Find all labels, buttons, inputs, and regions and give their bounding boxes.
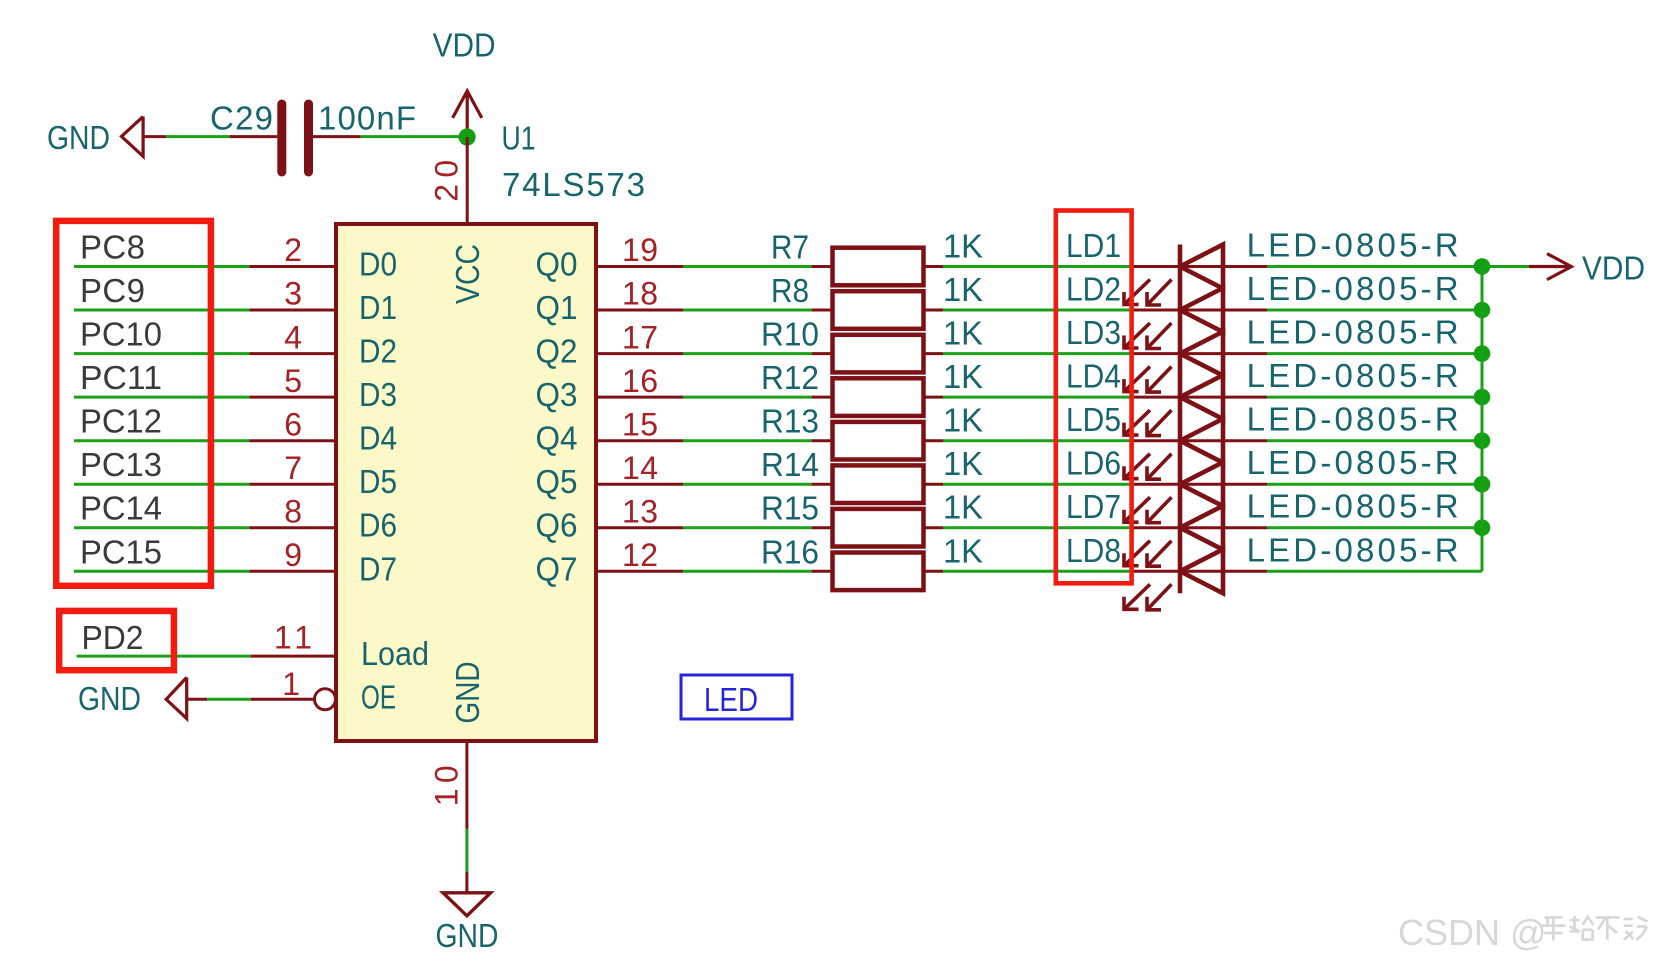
svg-text:GND: GND xyxy=(78,680,141,717)
pin 4 D2 xyxy=(250,319,398,369)
LED LD8 LED-0805-R xyxy=(1066,531,1459,610)
svg-text:74LS573: 74LS573 xyxy=(502,166,645,203)
resistor R16 1K xyxy=(761,532,983,590)
svg-text:Q0: Q0 xyxy=(536,246,578,283)
wire LD5 to VDD bus xyxy=(1267,439,1482,442)
svg-text:Q2: Q2 xyxy=(536,333,578,370)
pin 11 Load xyxy=(251,619,429,672)
svg-text:PC10: PC10 xyxy=(80,316,162,353)
svg-text:LED-0805-R: LED-0805-R xyxy=(1247,357,1459,394)
svg-text:VCC: VCC xyxy=(449,244,486,304)
wire GND to C29 xyxy=(166,135,230,138)
svg-text:GND: GND xyxy=(436,917,499,954)
junction dot row 5 xyxy=(1474,432,1491,449)
svg-text:C29: C29 xyxy=(210,100,273,137)
svg-text:Q5: Q5 xyxy=(536,463,578,500)
svg-text:LED: LED xyxy=(704,681,758,718)
power symbol GND (OE) xyxy=(78,677,207,718)
resistor R10 1K xyxy=(761,315,983,373)
svg-text:PC8: PC8 xyxy=(80,229,145,266)
LED LD7 LED-0805-R xyxy=(1066,488,1459,567)
wire GND to pin 1 xyxy=(207,698,251,701)
svg-text:D2: D2 xyxy=(359,333,397,370)
svg-text:GND: GND xyxy=(449,662,486,724)
svg-text:R13: R13 xyxy=(761,403,819,440)
svg-text:LED-0805-R: LED-0805-R xyxy=(1247,444,1459,481)
svg-text:GND: GND xyxy=(47,119,110,156)
pin 8 D6 xyxy=(250,493,398,543)
wire Q2 to R10 xyxy=(683,352,812,355)
wire LD4 to VDD bus xyxy=(1267,396,1482,399)
svg-text:R10: R10 xyxy=(761,316,819,353)
wire PC8 to pin 2 xyxy=(74,265,250,268)
wire Q3 to R12 xyxy=(683,396,812,399)
wire PC13 to pin 7 xyxy=(74,483,250,486)
svg-text:LED-0805-R: LED-0805-R xyxy=(1247,314,1459,351)
power symbol VDD (right) xyxy=(1482,250,1645,287)
svg-text:18: 18 xyxy=(622,276,658,312)
wire LD7 to VDD bus xyxy=(1267,526,1482,529)
power symbol GND (top left) xyxy=(47,117,166,157)
svg-text:100nF: 100nF xyxy=(318,100,416,137)
svg-text:14: 14 xyxy=(622,450,658,486)
svg-text:D7: D7 xyxy=(359,550,397,587)
svg-text:R15: R15 xyxy=(761,490,819,527)
svg-text:D6: D6 xyxy=(359,507,397,544)
junction dot row 6 xyxy=(1474,476,1491,493)
wire PC14 to pin 8 xyxy=(74,526,250,529)
svg-text:LD5: LD5 xyxy=(1066,401,1121,438)
svg-text:16: 16 xyxy=(622,363,658,399)
wire R8 to LD2 xyxy=(943,309,1134,312)
svg-text:Load: Load xyxy=(361,635,429,672)
annotation red box LD1-LD8 xyxy=(1056,211,1132,584)
svg-text:LD1: LD1 xyxy=(1066,227,1121,264)
wire PC15 to pin 9 xyxy=(74,570,250,573)
junction dot row 4 xyxy=(1474,389,1491,406)
svg-text:PC9: PC9 xyxy=(80,272,145,309)
svg-text:PC12: PC12 xyxy=(80,403,162,440)
svg-text:LD2: LD2 xyxy=(1066,271,1121,308)
svg-text:Q1: Q1 xyxy=(536,289,578,326)
svg-text:D4: D4 xyxy=(359,420,397,457)
resistor R7 1K xyxy=(771,228,983,286)
svg-text:D1: D1 xyxy=(359,289,397,326)
pin 1 OE with inversion bubble xyxy=(251,666,396,716)
watermark CSDN xyxy=(1398,912,1647,953)
pin 6 D4 xyxy=(250,406,398,456)
junction dot row 3 xyxy=(1474,345,1491,362)
svg-text:PC14: PC14 xyxy=(80,490,162,527)
wire R7 to LD1 xyxy=(943,265,1134,268)
svg-text:7: 7 xyxy=(284,450,302,486)
pin 2 D0 xyxy=(250,232,398,282)
svg-text:19: 19 xyxy=(622,232,658,268)
pin 3 D1 xyxy=(250,276,398,326)
svg-text:LD7: LD7 xyxy=(1066,488,1121,525)
pin 18 Q1 xyxy=(536,276,684,326)
wire Q0 to R7 xyxy=(683,265,812,268)
LED LD3 LED-0805-R xyxy=(1066,314,1459,393)
wire PC11 to pin 5 xyxy=(74,396,250,399)
junction dot row 7 xyxy=(1474,519,1491,536)
pin 20 VCC wire xyxy=(429,137,468,224)
svg-text:1K: 1K xyxy=(943,402,983,439)
svg-text:LD8: LD8 xyxy=(1066,532,1121,569)
wire Q5 to R14 xyxy=(683,483,812,486)
svg-text:LD3: LD3 xyxy=(1066,314,1121,351)
wire PC12 to pin 6 xyxy=(74,439,250,442)
svg-text:R8: R8 xyxy=(771,272,809,309)
svg-text:4: 4 xyxy=(284,319,302,355)
wire Q4 to R13 xyxy=(683,439,812,442)
svg-text:Q3: Q3 xyxy=(536,376,578,413)
svg-text:8: 8 xyxy=(284,493,302,529)
wire PD2 to pin 11 xyxy=(77,655,251,658)
svg-text:1K: 1K xyxy=(943,489,983,526)
svg-text:D5: D5 xyxy=(359,463,397,500)
svg-text:D0: D0 xyxy=(359,246,397,283)
wire R13 to LD5 xyxy=(943,439,1134,442)
svg-text:PC15: PC15 xyxy=(80,533,162,570)
svg-text:OE: OE xyxy=(361,679,396,716)
svg-text:1K: 1K xyxy=(943,532,983,569)
svg-text:Q4: Q4 xyxy=(536,420,578,457)
svg-text:R16: R16 xyxy=(761,533,819,570)
svg-text:PD2: PD2 xyxy=(82,619,144,656)
resistor R8 1K xyxy=(771,271,983,329)
resistor R14 1K xyxy=(761,445,983,503)
svg-text:3: 3 xyxy=(284,276,302,312)
power symbol GND (bottom) xyxy=(436,872,499,954)
wire R15 to LD7 xyxy=(943,526,1134,529)
svg-text:U1: U1 xyxy=(502,120,536,157)
wire C29 to VDD junction xyxy=(361,135,467,138)
pin 15 Q4 xyxy=(536,406,684,456)
wire Q6 to R15 xyxy=(683,526,812,529)
pin 19 Q0 xyxy=(536,232,684,282)
wire Q7 to R16 xyxy=(683,570,812,573)
pin 14 Q5 xyxy=(536,450,684,500)
wire VDD bus vertical xyxy=(1481,267,1484,572)
pin 12 Q7 xyxy=(536,537,684,587)
svg-text:2: 2 xyxy=(284,232,302,268)
pin 10 GND wire xyxy=(429,741,467,829)
svg-text:15: 15 xyxy=(622,406,658,442)
wire R12 to LD4 xyxy=(943,396,1134,399)
wire pin10 to GND symbol xyxy=(465,829,468,872)
svg-text:PC13: PC13 xyxy=(80,446,162,483)
pin 16 Q3 xyxy=(536,363,684,413)
wire PC10 to pin 4 xyxy=(74,352,250,355)
pin 17 Q2 xyxy=(536,319,684,369)
wire PC9 to pin 3 xyxy=(74,309,250,312)
svg-text:VDD: VDD xyxy=(433,27,496,64)
svg-text:5: 5 xyxy=(284,363,302,399)
svg-text:Q6: Q6 xyxy=(536,507,578,544)
resistor R13 1K xyxy=(761,402,983,460)
junction dot row 1 xyxy=(1474,258,1491,275)
svg-text:R12: R12 xyxy=(761,359,819,396)
svg-text:LED-0805-R: LED-0805-R xyxy=(1247,488,1459,525)
wire Q1 to R8 xyxy=(683,309,812,312)
wire LD1 to VDD bus xyxy=(1267,265,1482,268)
svg-text:1: 1 xyxy=(282,666,300,702)
svg-text:R7: R7 xyxy=(771,229,809,266)
wire R14 to LD6 xyxy=(943,483,1134,486)
svg-text:CSDN @: CSDN @ xyxy=(1398,912,1547,953)
pin 9 D7 xyxy=(250,537,398,587)
wire LD8 to VDD bus xyxy=(1267,570,1482,573)
LED LD5 LED-0805-R xyxy=(1066,401,1459,480)
junction dot row 2 xyxy=(1474,302,1491,319)
svg-text:13: 13 xyxy=(622,493,658,529)
svg-text:LD4: LD4 xyxy=(1066,358,1121,395)
svg-text:LD6: LD6 xyxy=(1066,445,1121,482)
svg-text:Q7: Q7 xyxy=(536,550,578,587)
svg-text:LED-0805-R: LED-0805-R xyxy=(1247,270,1459,307)
svg-text:1K: 1K xyxy=(943,445,983,482)
LED LD6 LED-0805-R xyxy=(1066,444,1459,523)
wire R10 to LD3 xyxy=(943,352,1134,355)
op IC U1 74LS573 body xyxy=(336,120,645,742)
svg-text:1K: 1K xyxy=(943,358,983,395)
resistor R12 1K xyxy=(761,358,983,416)
svg-text:VDD: VDD xyxy=(1582,250,1645,287)
junction (C29 / VDD / pin 20) xyxy=(459,128,476,145)
pin 7 D5 xyxy=(250,450,398,500)
wire LD6 to VDD bus xyxy=(1267,483,1482,486)
svg-text:LED-0805-R: LED-0805-R xyxy=(1247,227,1459,264)
LED LD2 LED-0805-R xyxy=(1066,270,1459,349)
svg-text:1K: 1K xyxy=(943,228,983,265)
wire LD2 to VDD bus xyxy=(1267,309,1482,312)
svg-text:LED-0805-R: LED-0805-R xyxy=(1247,531,1459,568)
svg-text:6: 6 xyxy=(284,406,302,442)
svg-text:1K: 1K xyxy=(943,271,983,308)
svg-text:LED-0805-R: LED-0805-R xyxy=(1247,401,1459,438)
svg-text:D3: D3 xyxy=(359,376,397,413)
annotation blue box LED xyxy=(681,675,792,719)
LED LD4 LED-0805-R xyxy=(1066,357,1459,436)
svg-text:1K: 1K xyxy=(943,315,983,352)
annotation red box PD2 xyxy=(59,611,174,670)
svg-text:17: 17 xyxy=(622,319,658,355)
pin 13 Q6 xyxy=(536,493,684,543)
svg-text:PC11: PC11 xyxy=(80,359,162,396)
svg-text:9: 9 xyxy=(284,537,302,573)
power symbol VDD (top) xyxy=(433,27,496,137)
pin 5 D3 xyxy=(250,363,398,413)
resistor R15 1K xyxy=(761,489,983,547)
annotation red box PC8-PC15 xyxy=(56,221,211,586)
wire LD3 to VDD bus xyxy=(1267,352,1482,355)
LED LD1 LED-0805-R xyxy=(1066,227,1459,306)
capacitor C29 100nF xyxy=(210,100,416,177)
wire R16 to LD8 xyxy=(943,570,1134,573)
svg-text:R14: R14 xyxy=(761,446,819,483)
svg-text:12: 12 xyxy=(622,537,658,573)
